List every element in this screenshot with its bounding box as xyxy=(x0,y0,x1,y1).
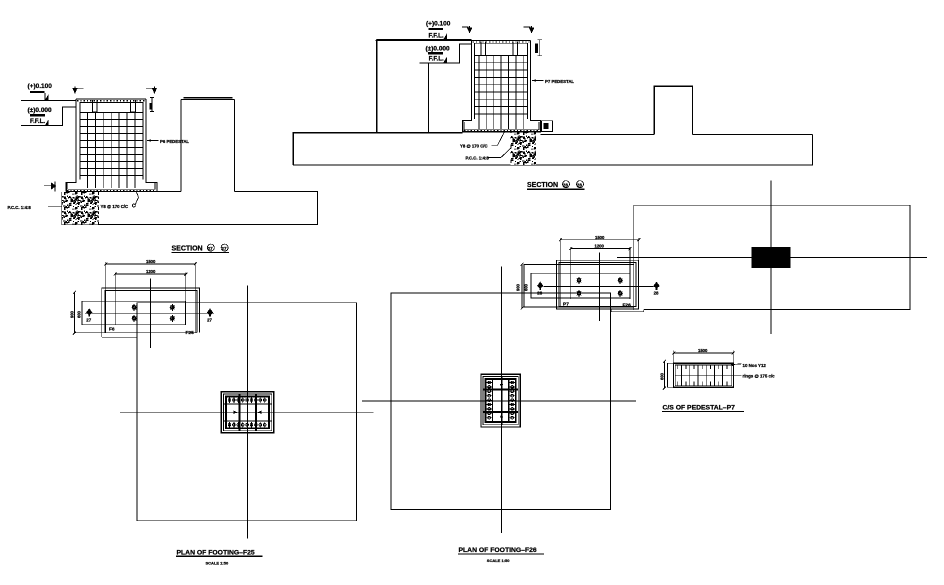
dim line 1500 top xyxy=(104,259,197,266)
svg-text:SCALE 1:50: SCALE 1:50 xyxy=(206,561,229,566)
C/S mid horizontal xyxy=(675,374,732,376)
vertical dim right detail xyxy=(516,263,529,310)
ground line right section xyxy=(541,133,813,135)
pedestal P6 top dotted row xyxy=(77,100,145,102)
footing F6 bottom dotted row xyxy=(67,189,156,191)
F26 pedestal plan detail xyxy=(481,374,520,427)
long footing rectangle xyxy=(634,205,910,310)
ground line right of footing F6 xyxy=(157,190,181,192)
dim line 1500 top right detail xyxy=(559,235,640,241)
long footing centerline vertical xyxy=(770,180,772,334)
svg-text:27: 27 xyxy=(208,246,214,251)
svg-text:1200: 1200 xyxy=(595,244,605,249)
svg-text:F25: F25 xyxy=(186,330,195,336)
pedestal P7 rebar hooks xyxy=(481,42,486,56)
section spade 28 left xyxy=(537,282,543,296)
label P.C.C. 1:4:8 left xyxy=(8,205,63,210)
svg-text:C/S OF PEDESTAL–P7: C/S OF PEDESTAL–P7 xyxy=(663,405,736,412)
level marker (+)0.100 left section xyxy=(28,83,53,101)
small dim pedestal P7 top right xyxy=(535,40,542,56)
svg-text:900: 900 xyxy=(70,310,75,318)
svg-text:Y8 @ 170 C/C: Y8 @ 170 C/C xyxy=(101,204,129,209)
svg-text:1500: 1500 xyxy=(595,235,605,240)
svg-text:900: 900 xyxy=(516,283,521,291)
pedestal P6 grid horizontals xyxy=(80,113,143,176)
dim down-arrow left of pedestal P7 xyxy=(462,26,473,33)
witness lines right detail xyxy=(560,238,638,309)
dim line 1200 right detail xyxy=(569,244,631,251)
P.C.C. stipple block left xyxy=(62,192,99,225)
svg-text:(±)0.000: (±)0.000 xyxy=(426,46,451,53)
svg-text:600: 600 xyxy=(660,372,665,380)
svg-text:P6 PEDESTAL: P6 PEDESTAL xyxy=(160,139,189,144)
small dim pedestal top right xyxy=(150,98,155,112)
svg-text:P7 PEDESTAL: P7 PEDESTAL xyxy=(545,79,574,84)
pedestal band rect right detail xyxy=(531,273,630,298)
wide rect right detail xyxy=(524,265,634,307)
pedestal P6 rebar hooks xyxy=(93,100,98,112)
svg-text:PLAN OF FOOTING–F26: PLAN OF FOOTING–F26 xyxy=(459,547,537,554)
pedestal P6 outline with footing flare xyxy=(66,99,157,191)
svg-text:SECTION: SECTION xyxy=(172,246,203,253)
footing F26 square xyxy=(391,293,611,510)
pedestal P7 top dotted row xyxy=(473,41,530,43)
C/S vertical dim xyxy=(660,360,666,390)
svg-text:27: 27 xyxy=(86,318,91,323)
bottom step notch right detail xyxy=(611,310,644,312)
F26 centerline horizontal xyxy=(362,400,636,402)
level marker (+)0.100 right section xyxy=(426,21,451,40)
dim line 1200 xyxy=(114,269,188,276)
svg-text:PLAN OF FOOTING–F25: PLAN OF FOOTING–F25 xyxy=(177,550,255,557)
pedestal P6 grid verticals xyxy=(88,113,135,189)
svg-text:1500: 1500 xyxy=(146,259,156,264)
footing F6 bottom rebar xyxy=(68,183,155,189)
svg-text:(+)0.100: (+)0.100 xyxy=(426,21,451,28)
svg-text:F26: F26 xyxy=(623,303,632,309)
C/S grid verticals xyxy=(682,365,723,386)
svg-text:27: 27 xyxy=(221,246,227,251)
F25 pedestal plan detail xyxy=(221,392,274,433)
footing F25 square xyxy=(137,303,357,521)
dim down-arrow right of pedestal P7 xyxy=(524,26,535,33)
section spade 27 left xyxy=(86,308,92,322)
svg-text:1200: 1200 xyxy=(146,269,156,274)
C/S leader 10 Nos Y12 xyxy=(731,363,766,368)
P.C.C. stipple block right xyxy=(510,132,535,165)
svg-text:(+)0.100: (+)0.100 xyxy=(28,83,53,90)
C/S hook ticks xyxy=(678,365,727,386)
svg-text:27: 27 xyxy=(207,318,212,323)
svg-text:F6: F6 xyxy=(109,326,115,332)
pedestal P7 grid verticals xyxy=(479,56,523,130)
ground step line below FFL right xyxy=(428,63,430,133)
level line FFL right section xyxy=(420,44,472,63)
title PLAN OF FOOTING-F26 xyxy=(458,547,544,563)
rebar symbols right detail xyxy=(576,277,581,284)
detail centerline horizontal xyxy=(85,312,214,314)
svg-text:P7: P7 xyxy=(563,302,569,308)
svg-text:28: 28 xyxy=(654,291,659,296)
C/S leader rings xyxy=(732,373,775,378)
F25 centerline vertical xyxy=(247,285,249,538)
label Y8 @ 170 C/C right xyxy=(460,132,505,149)
footing F7 bottom dotted row xyxy=(464,130,540,132)
slab right section xyxy=(293,134,812,165)
svg-text:10 Nos Y12: 10 Nos Y12 xyxy=(743,363,767,368)
footing F7 plan double rect xyxy=(556,260,638,309)
label P7 PEDESTAL xyxy=(532,79,575,84)
column stub right section xyxy=(654,86,692,134)
label Y8 @ 170 C/C left xyxy=(101,192,139,209)
dim down-arrow right of pedestal P6 xyxy=(146,86,157,93)
level line FFL left section xyxy=(21,107,76,126)
label P6 PEDESTAL xyxy=(147,139,189,144)
rebar symbols left detail xyxy=(132,304,137,311)
svg-text:F.F.L.: F.F.L. xyxy=(30,118,45,125)
svg-text:28: 28 xyxy=(563,182,569,187)
level marker (±)0.000 right section xyxy=(426,46,451,64)
small dim footing right xyxy=(542,121,553,132)
svg-text:600: 600 xyxy=(524,283,529,291)
level line +0.100 right section (wall top) xyxy=(377,39,472,41)
section spade 28 right xyxy=(653,282,659,296)
vertical dim left detail xyxy=(70,291,82,335)
pedestal P7 grid horizontals xyxy=(475,56,528,114)
pedestal P6 stirrup cage xyxy=(80,103,143,180)
svg-text:P.C.C. 1:4:8: P.C.C. 1:4:8 xyxy=(8,205,32,210)
long footing centerline horizontal xyxy=(617,257,927,259)
svg-text:SECTION: SECTION xyxy=(527,182,558,189)
svg-text:600: 600 xyxy=(77,310,82,318)
svg-text:P.C.C. 1:4:8: P.C.C. 1:4:8 xyxy=(466,155,490,160)
dim down-arrow left of pedestal P6 xyxy=(72,86,83,93)
svg-text:Y8 @ 170 C/C: Y8 @ 170 C/C xyxy=(460,143,488,148)
title PLAN OF FOOTING-F25 xyxy=(176,550,263,566)
level line +0.100 left section xyxy=(21,100,76,102)
C/S pedestal rect xyxy=(673,363,733,387)
svg-text:SCALE 1:50: SCALE 1:50 xyxy=(487,558,510,563)
svg-text:rings @ 175 c/c: rings @ 175 c/c xyxy=(743,373,776,378)
F25 centerline horizontal xyxy=(120,412,374,414)
title SECTION 28-28 xyxy=(527,181,585,190)
footing depth arrow left xyxy=(44,181,56,191)
title C/S OF PEDESTAL-P7 xyxy=(662,405,744,412)
footing F6 bottom line xyxy=(66,190,157,192)
pedestal P7 outline with footing flare xyxy=(463,41,541,132)
svg-text:F.F.L.: F.F.L. xyxy=(429,33,444,40)
svg-text:1500: 1500 xyxy=(698,348,708,353)
label P.C.C. 1:4:8 right xyxy=(466,148,512,161)
detail centerline vertical xyxy=(149,278,151,348)
pedestal band rect left detail xyxy=(82,301,185,325)
title SECTION 27-27 xyxy=(172,244,230,253)
column black block xyxy=(751,247,790,268)
F26 centerline vertical xyxy=(501,267,503,534)
section spade 27 right xyxy=(207,308,213,322)
right detail centerline horizontal xyxy=(544,286,654,288)
C/S dim 1500 xyxy=(672,348,734,363)
svg-text:(±)0.000: (±)0.000 xyxy=(28,107,53,114)
wall column left section xyxy=(181,98,235,192)
level marker (±)0.000 F.F.L. left section xyxy=(28,107,53,126)
footing F7 bottom rebar xyxy=(464,122,539,130)
svg-text:F.F.L.: F.F.L. xyxy=(429,55,444,62)
ground line and slab left section xyxy=(62,191,318,224)
footing F6 plan double rect xyxy=(102,288,200,337)
wall column right section xyxy=(293,40,463,166)
witness lines top dims xyxy=(106,262,196,333)
pedestal P7 stirrup cage xyxy=(475,43,528,119)
svg-text:28: 28 xyxy=(577,182,583,187)
right detail centerline vertical xyxy=(598,253,600,322)
